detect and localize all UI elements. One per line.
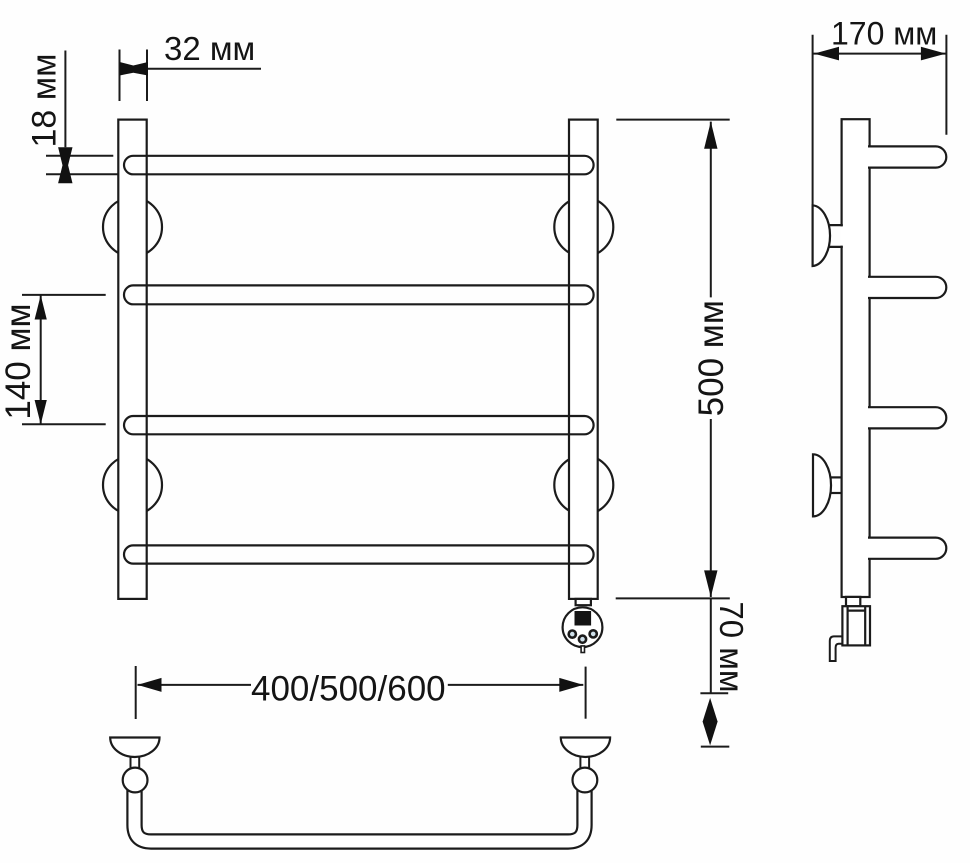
140mm dimension vertical line bbox=[40, 295, 42, 424]
side view: bar stub 3 bbox=[868, 407, 946, 428]
18mm dimension vertical line bbox=[64, 51, 66, 148]
svg-text:70 мм: 70 мм bbox=[713, 601, 750, 692]
svg-text:140 мм: 140 мм bbox=[0, 303, 38, 419]
140mm arrow down bbox=[35, 400, 47, 424]
side view: heater box inner line left bbox=[846, 606, 848, 645]
400 dim arrow right bbox=[559, 678, 583, 692]
svg-text:500 мм: 500 мм bbox=[692, 300, 731, 416]
70mm dimension line bbox=[710, 598, 712, 693]
500mm arrow up bbox=[704, 122, 717, 149]
front view: heater stem bbox=[581, 646, 584, 653]
front view: towel bar 4 (bottom) bbox=[124, 545, 594, 563]
front view: wall mount circle lower-left bbox=[103, 456, 162, 515]
bottom view: right mount stem bbox=[580, 753, 589, 769]
500mm dimension line upper segment bbox=[710, 122, 712, 298]
side view: heater box inner top line bbox=[848, 609, 866, 611]
svg-text:32 мм: 32 мм bbox=[164, 30, 255, 67]
front view: heater pin middle bbox=[579, 636, 586, 643]
70mm tick upper bbox=[700, 692, 728, 694]
side view: bar stub 2 bbox=[868, 277, 946, 298]
32mm extension line right bbox=[146, 50, 148, 102]
140mm extension line bottom bbox=[22, 423, 106, 425]
bottom view: right mount dish bbox=[561, 738, 610, 758]
svg-text:170 мм: 170 мм bbox=[831, 16, 937, 52]
front view: heater pin right bbox=[590, 630, 597, 637]
side view: bar stub 1 bbox=[868, 146, 946, 167]
front view: right vertical post bbox=[569, 120, 598, 599]
front view: heater body circle bbox=[563, 607, 603, 647]
side view: power hook wire bbox=[830, 636, 843, 661]
front view: heater pin left bbox=[569, 631, 576, 638]
32mm extension line left bbox=[119, 50, 121, 102]
front view: towel bar 3 bbox=[124, 416, 594, 434]
18mm hourglass arrows bbox=[58, 147, 72, 183]
side view: vertical post bbox=[842, 119, 870, 597]
140mm arrow up bbox=[35, 295, 47, 319]
side view: mount dome upper bbox=[813, 205, 830, 266]
bottom view: left mount stem bbox=[131, 753, 140, 769]
bottom view: right mount ball bbox=[573, 768, 598, 793]
500mm/70mm extension line at post bottom bbox=[616, 597, 730, 599]
70mm rhombus arrow bbox=[703, 698, 718, 746]
front view: left vertical post bbox=[118, 120, 146, 599]
170mm extension line left / wall line bbox=[812, 35, 814, 207]
side view: heater neck bbox=[846, 597, 860, 606]
500mm dimension line lower segment bbox=[710, 419, 712, 597]
500mm extension line top bbox=[616, 119, 729, 121]
400/500/600 tick right bbox=[585, 667, 587, 719]
svg-text:18 мм: 18 мм bbox=[26, 53, 64, 147]
18mm extension line top bbox=[46, 155, 113, 157]
170mm extension line right bbox=[945, 35, 947, 135]
32mm bowtie arrow bbox=[120, 62, 148, 76]
front view: towel bar 2 bbox=[124, 285, 594, 304]
svg-text:400/500/600: 400/500/600 bbox=[251, 670, 446, 709]
front view: wall mount circle upper-right bbox=[554, 198, 613, 257]
400 dim arrow left bbox=[138, 678, 162, 692]
170mm arrow right bbox=[921, 47, 946, 61]
170mm dim line bbox=[813, 53, 946, 55]
bottom view: tube (inner white) bbox=[135, 785, 585, 842]
bottom view: tube (outer) bbox=[135, 785, 585, 842]
170mm arrow left bbox=[814, 47, 839, 61]
side view: mount stem upper (open into post) bbox=[840, 226, 843, 245]
side view: mount dome lower bbox=[813, 454, 831, 516]
side view: heater box inner line right bbox=[864, 606, 866, 645]
side view: heater box bbox=[842, 606, 870, 645]
front view: heater black connector block bbox=[575, 611, 592, 626]
side view: bar stub 4 bbox=[868, 538, 946, 559]
400/500/600 leader line right bbox=[448, 684, 584, 686]
400/500/600 leader line left bbox=[138, 684, 252, 686]
bottom view: left mount ball bbox=[123, 768, 148, 793]
front view: wall mount circle lower-right bbox=[554, 456, 613, 515]
side view: mount stem lower bbox=[828, 477, 843, 493]
front view: heater neck below right post bbox=[576, 599, 591, 605]
bottom view: left mount dish bbox=[110, 738, 159, 758]
front view: wall mount circle upper-left bbox=[103, 198, 162, 257]
front view: towel bar 1 (top) bbox=[124, 156, 594, 175]
400/500/600 tick left bbox=[135, 666, 137, 719]
70mm tick lower bbox=[701, 746, 730, 748]
32mm leader line bbox=[147, 68, 261, 70]
18mm extension line bottom bbox=[46, 173, 118, 175]
140mm extension line top bbox=[22, 294, 106, 296]
500mm arrow down bbox=[704, 570, 717, 597]
